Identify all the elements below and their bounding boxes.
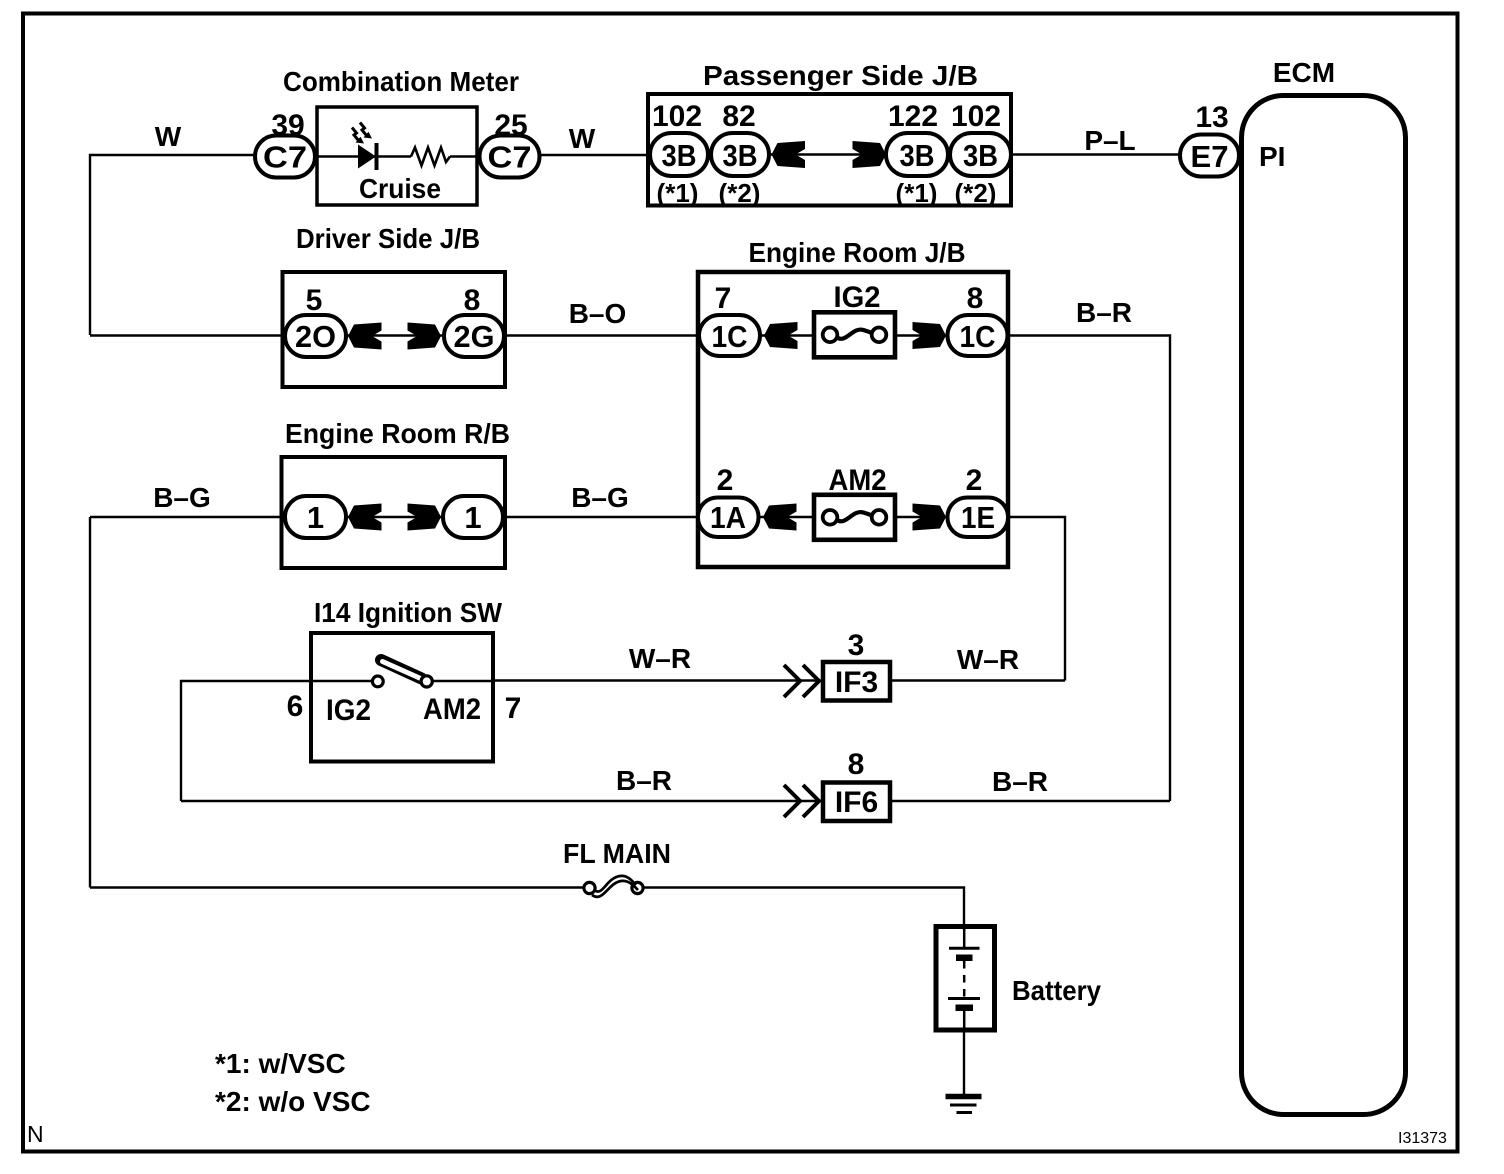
- ECM box: [1242, 96, 1406, 1115]
- svg-text:E7: E7: [1191, 139, 1229, 174]
- svg-text:B–R: B–R: [992, 766, 1048, 797]
- connector 1 (left): [285, 496, 346, 538]
- arrow right (passenger J/B): [853, 141, 887, 168]
- resistor in combination meter: [411, 148, 450, 166]
- svg-text:Combination Meter: Combination Meter: [283, 66, 519, 97]
- connector E7: [1180, 135, 1239, 177]
- connector 1A: [698, 498, 759, 538]
- connector IF6: [823, 783, 890, 822]
- wire row AM2: [758, 516, 947, 518]
- svg-text:IG2: IG2: [834, 281, 881, 314]
- connector 2O: [285, 315, 346, 357]
- connector 2G: [444, 315, 504, 357]
- svg-text:1A: 1A: [710, 500, 746, 535]
- ground: [946, 1097, 982, 1113]
- splice arrows into IF3: [784, 665, 819, 697]
- svg-text:Passenger Side J/B: Passenger Side J/B: [703, 60, 978, 91]
- svg-text:I14 Ignition SW: I14 Ignition SW: [314, 597, 503, 628]
- svg-text:1: 1: [307, 500, 324, 535]
- svg-text:(*2): (*2): [719, 178, 761, 208]
- driver side J/B box: [283, 272, 506, 387]
- connector 3B (102 right): [950, 133, 1011, 176]
- svg-text:B–G: B–G: [571, 482, 629, 513]
- svg-text:1E: 1E: [961, 500, 995, 535]
- wire from left vertical to 2O: [90, 334, 285, 336]
- svg-text:B–R: B–R: [616, 765, 672, 796]
- svg-text:W: W: [569, 123, 596, 154]
- battery: [936, 927, 995, 1031]
- connector 3B (82): [711, 133, 769, 176]
- combination meter box: [317, 107, 477, 205]
- svg-text:(*2): (*2): [955, 178, 997, 208]
- svg-text:Engine Room J/B: Engine Room J/B: [749, 237, 966, 268]
- arrow right (R/B): [408, 504, 442, 531]
- svg-text:122: 122: [888, 100, 938, 133]
- svg-text:W–R: W–R: [629, 643, 691, 674]
- wire W-R from ignition SW to IF3: [493, 679, 823, 681]
- arrow left (R/B): [348, 504, 382, 531]
- wire B-R from IF6 to right vertical: [890, 800, 1170, 802]
- connector C7 (pin 25): [480, 136, 540, 178]
- svg-text:8: 8: [848, 748, 865, 781]
- svg-text:PI: PI: [1259, 141, 1285, 172]
- wire W-R from IF3 to vertical: [890, 679, 1065, 681]
- wire inside ignition switch: [311, 680, 372, 682]
- LED cruise indicator lamp: [352, 123, 377, 171]
- svg-text:(*1): (*1): [657, 178, 699, 208]
- svg-text:3B: 3B: [963, 138, 998, 173]
- svg-text:2G: 2G: [454, 319, 495, 354]
- svg-text:2O: 2O: [295, 319, 336, 354]
- svg-text:IF3: IF3: [835, 666, 878, 699]
- svg-text:13: 13: [1195, 101, 1228, 134]
- svg-text:C7: C7: [488, 140, 532, 175]
- svg-text:3B: 3B: [662, 138, 697, 173]
- svg-text:ECM: ECM: [1273, 57, 1335, 88]
- fusible link FL MAIN: [584, 876, 643, 897]
- arrow right (AM2 row): [913, 504, 947, 531]
- passenger side J/B box: [648, 94, 1011, 206]
- svg-text:AM2: AM2: [829, 464, 887, 497]
- svg-text:1: 1: [464, 500, 481, 535]
- connector 1E: [948, 498, 1009, 538]
- svg-text:B–R: B–R: [1076, 297, 1132, 328]
- arrow right (IG2 row): [913, 322, 947, 349]
- svg-text:7: 7: [715, 282, 732, 315]
- svg-text:B–G: B–G: [153, 482, 211, 513]
- svg-text:2: 2: [966, 464, 983, 497]
- wire left vertical B-G: [90, 516, 285, 518]
- wire B-O: [504, 334, 699, 336]
- svg-text:I31373: I31373: [1398, 1130, 1447, 1147]
- svg-text:3B: 3B: [900, 138, 935, 173]
- svg-text:8: 8: [464, 284, 481, 317]
- wire between 1 and 1: [346, 516, 443, 518]
- svg-text:W–R: W–R: [957, 644, 1019, 675]
- arrow left (AM2 row): [763, 504, 797, 531]
- vertical wire x90 (B-G to FL MAIN): [89, 517, 91, 888]
- svg-text:Driver Side J/B: Driver Side J/B: [296, 223, 480, 254]
- connector 1C (left): [699, 315, 760, 356]
- wire between 3B connectors: [770, 153, 886, 155]
- switch lever: [381, 660, 422, 679]
- wire row IG2: [760, 334, 947, 336]
- wire B-R from 1C to right vertical: [1008, 336, 1170, 802]
- svg-text:FL MAIN: FL MAIN: [563, 838, 671, 869]
- svg-text:Battery: Battery: [1012, 975, 1101, 1006]
- svg-text:3: 3: [848, 629, 865, 662]
- ignition switch box: [311, 633, 493, 762]
- svg-text:AM2: AM2: [423, 693, 481, 726]
- svg-text:*2: w/o VSC: *2: w/o VSC: [215, 1086, 371, 1117]
- connector 3B (122): [886, 133, 948, 176]
- connector 1C (right): [948, 315, 1008, 356]
- wire B-R row to IF6: [181, 800, 823, 802]
- engine room R/B box: [282, 457, 506, 568]
- svg-text:3B: 3B: [723, 138, 758, 173]
- wire between 2O and 2G: [346, 334, 443, 336]
- wire B-G to engine room J/B: [503, 516, 698, 518]
- svg-text:2: 2: [717, 464, 734, 497]
- svg-text:1C: 1C: [712, 319, 748, 354]
- arrow left (passenger J/B): [772, 141, 806, 168]
- arrow right (driver J/B): [408, 323, 442, 350]
- svg-text:5: 5: [306, 284, 323, 317]
- wire battery to ground: [963, 1030, 965, 1097]
- svg-text:C7: C7: [263, 140, 307, 175]
- svg-text:82: 82: [722, 100, 755, 133]
- switch contact AM2: [421, 676, 432, 687]
- svg-text:P–L: P–L: [1084, 125, 1135, 156]
- svg-text:8: 8: [967, 282, 984, 315]
- svg-text:W: W: [155, 121, 182, 152]
- svg-text:102: 102: [951, 100, 1001, 133]
- splice arrows into IF6: [784, 785, 819, 817]
- wire from ignition SW pin 6 to left vertical: [181, 681, 311, 801]
- svg-text:B–O: B–O: [569, 298, 627, 329]
- svg-text:1C: 1C: [960, 319, 996, 354]
- svg-text:IF6: IF6: [835, 786, 878, 819]
- connector IF3: [823, 662, 890, 701]
- connector C7 (pin 39): [255, 136, 315, 178]
- svg-text:N: N: [27, 1121, 44, 1147]
- svg-text:102: 102: [652, 100, 702, 133]
- svg-text:IG2: IG2: [326, 694, 371, 727]
- switch contact IG2: [372, 676, 383, 687]
- wire W from left vertical to C7 pin 39: [90, 155, 255, 335]
- svg-text:(*1): (*1): [896, 178, 938, 208]
- engine room J/B box: [698, 272, 1008, 567]
- wire W from C7 to passenger J/B: [540, 154, 651, 156]
- connector 3B (102 left): [650, 133, 708, 176]
- fuse AM2: [814, 495, 895, 540]
- svg-text:6: 6: [287, 690, 304, 723]
- wire FL MAIN right to battery: [643, 888, 964, 927]
- wire P-L to ECM: [1011, 153, 1180, 155]
- svg-text:7: 7: [505, 692, 522, 725]
- wire from 1E down to W-R row: [1008, 517, 1065, 681]
- fuse IG2: [814, 312, 895, 357]
- connector 1 (right): [443, 496, 503, 538]
- arrow left (IG2 row): [764, 322, 798, 349]
- svg-text:Engine Room R/B: Engine Room R/B: [285, 418, 510, 449]
- arrow left (driver J/B): [348, 323, 382, 350]
- svg-text:Cruise: Cruise: [359, 173, 441, 204]
- wire FL MAIN left: [90, 886, 584, 888]
- wire inside combination meter: [317, 155, 411, 157]
- svg-text:*1: w/VSC: *1: w/VSC: [215, 1048, 346, 1079]
